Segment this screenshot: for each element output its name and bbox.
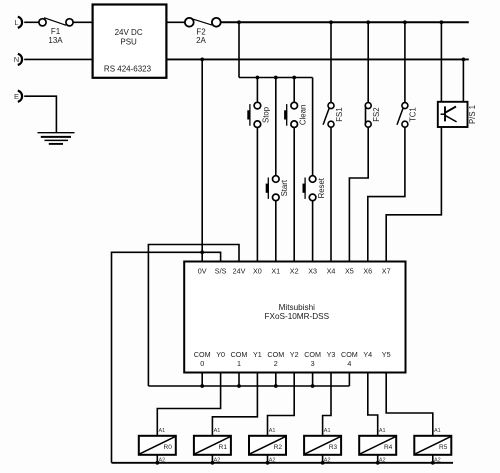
switch TC1 — [402, 103, 408, 109]
node bank X2 — [292, 76, 296, 80]
svg-text:A1: A1 — [434, 428, 441, 434]
wire R1 A2 stub — [211, 455, 213, 463]
switch FS2 — [365, 103, 371, 109]
node P/S1 0V tap — [462, 58, 466, 62]
wire — [330, 22, 332, 102]
svg-text:A1: A1 — [214, 428, 221, 434]
wire bottom rail — [112, 462, 454, 464]
wire Y2 to R2 — [268, 373, 295, 436]
wire — [24, 21, 39, 23]
svg-text:A1: A1 — [379, 428, 386, 434]
wire — [440, 22, 442, 102]
svg-text:L: L — [14, 18, 18, 27]
wire COM3 stub — [312, 373, 314, 387]
wire — [386, 127, 441, 262]
svg-text:Y0: Y0 — [216, 350, 225, 359]
wire R2 A2 stub — [267, 455, 269, 463]
wire 0V rail — [166, 58, 468, 60]
node COM2 — [274, 384, 278, 388]
svg-text:A1: A1 — [269, 428, 276, 434]
power supply PSU — [93, 5, 167, 78]
wire Y1 to R1 — [212, 373, 257, 436]
wire COM bus — [148, 385, 349, 387]
pushbutton Stop — [254, 102, 261, 109]
wire Y4 to R4 — [368, 373, 378, 436]
svg-text:S/S: S/S — [215, 266, 227, 275]
pushbutton Start — [273, 176, 280, 183]
svg-text:R2: R2 — [274, 444, 283, 451]
wire R3 A2 stub — [322, 455, 324, 463]
svg-text:TC1: TC1 — [409, 107, 418, 122]
svg-text:Y4: Y4 — [363, 350, 372, 359]
relay R5 — [414, 436, 451, 455]
svg-text:1: 1 — [237, 359, 241, 368]
node R4 A2 — [376, 461, 380, 465]
wire R4 A2 stub — [377, 455, 379, 463]
fuse F2 — [185, 18, 194, 27]
svg-text:E: E — [14, 92, 19, 101]
wire — [24, 96, 56, 133]
wire COM4 stub — [348, 373, 350, 387]
wire — [367, 22, 369, 102]
wire bank feed — [238, 22, 240, 77]
wire COM1 stub — [238, 373, 240, 387]
wire 24V to COM bus — [148, 245, 239, 387]
svg-text:R4: R4 — [384, 444, 393, 451]
svg-text:X7: X7 — [382, 266, 391, 275]
node bank feed tap — [237, 20, 241, 24]
wire bank bar — [239, 77, 313, 79]
svg-text:Clean: Clean — [298, 105, 307, 125]
svg-text:X0: X0 — [253, 266, 262, 275]
ground — [38, 132, 75, 134]
svg-text:Y5: Y5 — [382, 350, 391, 359]
relay R3 — [304, 436, 341, 455]
wire Y3 to R3 — [323, 373, 331, 436]
wire — [73, 21, 93, 23]
svg-text:2A: 2A — [196, 36, 206, 45]
svg-text:0V: 0V — [198, 266, 207, 275]
svg-text:2: 2 — [274, 359, 278, 368]
svg-text:Mitsubishi: Mitsubishi — [279, 303, 316, 312]
node R2 A2 — [266, 461, 270, 465]
sensor P/S1 — [438, 102, 468, 127]
wire — [404, 22, 406, 102]
wire — [293, 78, 295, 103]
wire R5 A2 stub — [432, 455, 434, 463]
svg-text:0: 0 — [200, 359, 204, 368]
node FS2 tap — [366, 20, 370, 24]
sensor P/S1 symbol — [444, 106, 446, 121]
wire — [256, 78, 258, 103]
svg-text:24V DC: 24V DC — [115, 28, 143, 37]
terminal L — [18, 17, 22, 28]
wire — [256, 128, 258, 262]
svg-text:X2: X2 — [290, 266, 299, 275]
svg-text:Y3: Y3 — [327, 350, 336, 359]
svg-text:R3: R3 — [329, 444, 338, 451]
wire S/S link — [202, 252, 220, 261]
svg-text:FS2: FS2 — [372, 107, 381, 121]
node COM1 — [237, 384, 241, 388]
node R5 A2 — [431, 461, 435, 465]
svg-text:FXoS-10MR-DSS: FXoS-10MR-DSS — [264, 312, 329, 321]
svg-text:X6: X6 — [363, 266, 372, 275]
svg-text:FS1: FS1 — [335, 107, 344, 121]
wire COM0 stub — [201, 373, 203, 387]
wire — [166, 21, 184, 23]
wire Y5 to R5 — [386, 373, 433, 436]
fuse F1 — [39, 19, 46, 26]
relay R2 — [249, 436, 286, 455]
svg-text:X1: X1 — [271, 266, 280, 275]
svg-text:R1: R1 — [219, 444, 228, 451]
wire — [330, 127, 332, 261]
svg-text:Reset: Reset — [317, 177, 326, 198]
svg-text:R0: R0 — [164, 444, 173, 451]
wire — [462, 59, 464, 101]
node 0V branch — [200, 250, 204, 254]
wire — [349, 127, 368, 261]
wire — [24, 58, 92, 60]
wire 24V rail — [221, 21, 469, 23]
node COM0 — [200, 384, 204, 388]
node COM3 — [311, 384, 315, 388]
switch FS1 — [328, 103, 334, 109]
wire 0V drop — [201, 59, 203, 261]
node R0 A2 — [155, 461, 159, 465]
node FS1 tap — [329, 20, 333, 24]
svg-text:R5: R5 — [439, 444, 448, 451]
svg-text:Stop: Stop — [262, 106, 271, 123]
PLC U1 Mitsubishi FX0S-10MR-DSS — [184, 262, 405, 373]
wire — [293, 128, 295, 262]
svg-text:P/S 1: P/S 1 — [468, 105, 477, 124]
node TC1 tap — [403, 20, 407, 24]
node 0V rail tap — [200, 58, 204, 62]
svg-text:3: 3 — [311, 359, 315, 368]
svg-text:X3: X3 — [308, 266, 317, 275]
terminal N — [18, 54, 22, 65]
wire — [368, 127, 405, 261]
svg-text:Y1: Y1 — [253, 350, 262, 359]
wire Y0 to R0 — [157, 373, 220, 436]
svg-text:N: N — [14, 55, 19, 64]
terminal E — [18, 91, 22, 102]
node bank X0 — [256, 76, 260, 80]
wire — [312, 78, 314, 176]
relay R0 — [139, 436, 176, 455]
relay R1 — [194, 436, 231, 455]
relay R4 — [359, 436, 396, 455]
node P/S1 24V tap — [440, 20, 444, 24]
svg-text:4: 4 — [347, 359, 351, 368]
wire 0V return — [112, 252, 203, 462]
svg-text:RS 424-6323: RS 424-6323 — [104, 65, 152, 74]
svg-text:F2: F2 — [196, 28, 206, 37]
pushbutton Clean — [291, 102, 298, 109]
wire — [312, 201, 314, 262]
node R3 A2 — [321, 461, 325, 465]
svg-text:Y2: Y2 — [290, 350, 299, 359]
svg-text:PSU: PSU — [120, 37, 137, 46]
svg-text:X4: X4 — [327, 266, 336, 275]
svg-text:A1: A1 — [324, 428, 331, 434]
node bank X1 — [274, 76, 278, 80]
svg-text:Start: Start — [280, 179, 289, 196]
wire R0 A2 stub — [156, 455, 158, 463]
svg-text:24V: 24V — [233, 266, 246, 275]
wire — [275, 201, 277, 262]
pushbutton Reset — [309, 176, 316, 183]
wire COM2 stub — [275, 373, 277, 387]
svg-text:A1: A1 — [159, 428, 166, 434]
svg-text:13A: 13A — [48, 36, 63, 45]
wire — [275, 78, 277, 176]
svg-text:X5: X5 — [345, 266, 354, 275]
node R1 A2 — [211, 461, 215, 465]
